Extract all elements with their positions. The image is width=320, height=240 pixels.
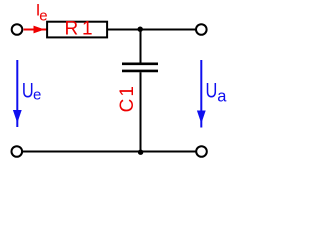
svg-text:e: e (33, 87, 41, 104)
terminal bottom-right (196, 146, 207, 157)
junction top node (138, 27, 143, 32)
svg-text:C1: C1 (117, 84, 138, 113)
junction bottom node (138, 150, 143, 155)
wire resistor to top-right terminal (108, 29, 196, 31)
svg-text:R1: R1 (65, 19, 97, 40)
svg-text:U: U (22, 78, 34, 101)
current arrow Ie wire (24, 29, 47, 31)
voltage arrow Ue line (16, 60, 18, 127)
voltage arrow Ue head (13, 110, 22, 123)
bottom wire (23, 151, 196, 153)
terminal top-right (196, 24, 207, 35)
capacitor C1 top plate (122, 62, 158, 65)
svg-text:a: a (217, 87, 227, 105)
wire junction to capacitor top (140, 30, 142, 63)
resistor R1 body (47, 22, 107, 38)
terminal bottom-left (11, 146, 22, 157)
terminal top-left (12, 24, 23, 35)
wire capacitor bottom to bottom node (140, 72, 142, 151)
capacitor C1 bottom plate (122, 70, 158, 73)
voltage arrow Ua head (197, 111, 206, 124)
current arrow Ie head (34, 26, 45, 34)
svg-text:U: U (206, 78, 218, 101)
voltage arrow Ua line (200, 60, 202, 128)
